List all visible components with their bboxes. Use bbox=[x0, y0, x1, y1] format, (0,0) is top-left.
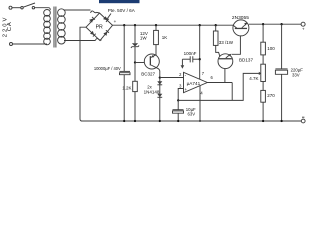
node R3 rail bbox=[215, 24, 217, 26]
AC squiggle top bbox=[91, 11, 100, 13]
node C3 bottom bbox=[177, 120, 179, 122]
output line from 2N3055 emitter bbox=[249, 23, 301, 25]
zener diode 12V 1W bbox=[134, 25, 136, 43]
svg-text:+: + bbox=[184, 87, 187, 92]
node C4 bottom bbox=[280, 120, 282, 122]
transformer T1 core bbox=[54, 7, 56, 48]
output terminal plus bbox=[301, 22, 305, 26]
node C1 top bbox=[123, 24, 125, 26]
svg-text:+: + bbox=[302, 27, 305, 32]
header bar bbox=[99, 0, 140, 3]
wire terminal to switch bbox=[12, 7, 21, 9]
svg-text:33V: 33V bbox=[292, 73, 300, 78]
ground rail bbox=[81, 120, 301, 122]
op-amp U1 uA741 bbox=[184, 72, 208, 92]
svg-text:4.7K: 4.7K bbox=[249, 76, 258, 81]
svg-text:1.2K: 1.2K bbox=[122, 85, 131, 90]
wire bridge minus to ground rail bbox=[80, 27, 86, 121]
diodes 2x 1N4148 bbox=[159, 78, 161, 121]
svg-text:10000µF / 40V: 10000µF / 40V bbox=[94, 66, 121, 71]
resistor R5 270 bbox=[262, 82, 264, 91]
svg-text:2N3055: 2N3055 bbox=[232, 15, 250, 20]
transformer T1 secondary winding bbox=[58, 9, 66, 44]
wire op-amp pin 4 to ground rail bbox=[199, 85, 201, 121]
svg-text:Pte. 50V / 6A: Pte. 50V / 6A bbox=[108, 8, 136, 13]
potentiometer P1 bbox=[261, 64, 266, 81]
svg-text:+: + bbox=[114, 19, 117, 24]
svg-text:BC327: BC327 bbox=[141, 71, 155, 76]
capacitor C1 10000uF/40V bbox=[123, 25, 125, 71]
bridge diode upper-left bbox=[89, 17, 95, 23]
bridge rectifier PR outline bbox=[86, 13, 113, 41]
wire BD137 emitter to 2N3055 base bbox=[232, 29, 241, 54]
AC input terminal top bbox=[9, 6, 12, 9]
bridge diode lower-right bbox=[103, 30, 109, 36]
node C4 top bbox=[280, 23, 282, 25]
node zener top bbox=[134, 24, 136, 26]
svg-text:PR: PR bbox=[96, 25, 103, 31]
resistor R4 100 bbox=[262, 24, 264, 42]
label 220V CA bbox=[2, 16, 13, 38]
wire secondary top to bridge AC top bbox=[64, 9, 91, 11]
wire rail to op-amp pin 7 bbox=[199, 25, 201, 79]
node C1 bottom bbox=[123, 120, 125, 122]
resistor R3 33/1W bbox=[215, 25, 217, 31]
wire to BC327 base bbox=[135, 62, 150, 64]
feedback wire to potentiometer wiper bbox=[178, 73, 259, 100]
bridge diode upper-right bbox=[103, 16, 109, 22]
wire switch to transformer primary bbox=[35, 8, 51, 11]
resistor R2 1.2K bbox=[134, 63, 136, 82]
AC input terminal bottom bbox=[10, 43, 13, 46]
wire op-amp pin 3 bbox=[178, 89, 183, 101]
bridge diode lower-left bbox=[90, 31, 96, 37]
transformer T1 primary winding bbox=[44, 10, 51, 45]
wire bottom terminal to transformer primary bbox=[13, 43, 47, 45]
node R5 bottom bbox=[262, 120, 264, 122]
svg-text:BD137: BD137 bbox=[239, 57, 253, 62]
svg-text:1W: 1W bbox=[140, 36, 148, 41]
node BC327 collector bbox=[159, 76, 161, 78]
wire output to BD137 base bbox=[224, 60, 226, 83]
svg-text:100: 100 bbox=[267, 46, 275, 51]
node divider top bbox=[262, 23, 264, 25]
node 100nF junction bbox=[199, 58, 201, 60]
positive rail from bridge bbox=[113, 24, 234, 26]
svg-text:1K: 1K bbox=[162, 35, 168, 40]
capacitor C2 100nF bbox=[193, 58, 200, 60]
svg-text:1N4148: 1N4148 bbox=[144, 90, 160, 95]
resistor R1 1K bbox=[155, 25, 157, 30]
AC squiggle bottom bbox=[95, 38, 101, 40]
output terminal minus bbox=[301, 119, 305, 123]
node R2 bottom bbox=[134, 120, 136, 122]
node R1 top bbox=[155, 24, 157, 26]
svg-text:CA: CA bbox=[7, 21, 13, 31]
svg-text:63V: 63V bbox=[188, 111, 196, 116]
wire BC327 collector to op-amp pin 2 bbox=[160, 77, 184, 79]
node pin3 feedback bbox=[177, 99, 179, 101]
node zener / BC327 base bbox=[134, 61, 136, 63]
node 100nF rail bbox=[199, 24, 201, 26]
svg-text:33 /1W: 33 /1W bbox=[219, 40, 234, 45]
svg-text:µA741: µA741 bbox=[187, 81, 201, 86]
switch S1 bbox=[21, 7, 23, 9]
svg-text:270: 270 bbox=[267, 93, 275, 98]
node diodes bottom bbox=[159, 120, 161, 122]
transistor Q3 2N3055 bbox=[233, 20, 249, 36]
callout arrow to bridge bbox=[108, 14, 111, 19]
capacitor C3 10uF 63V bbox=[177, 100, 179, 109]
wire secondary bottom to bridge AC bottom bbox=[64, 40, 95, 42]
wiper arrowhead bbox=[259, 72, 262, 75]
wire output jog down bbox=[231, 83, 233, 101]
transistor Q1 BC327 bbox=[144, 54, 159, 69]
svg-text:100nF: 100nF bbox=[184, 51, 197, 56]
ground arrow of 100nF bbox=[181, 65, 185, 69]
transistor Q2 BD137 bbox=[218, 54, 233, 69]
wire op-amp output bbox=[207, 82, 232, 84]
capacitor C4 220uF 33V bbox=[281, 24, 283, 69]
